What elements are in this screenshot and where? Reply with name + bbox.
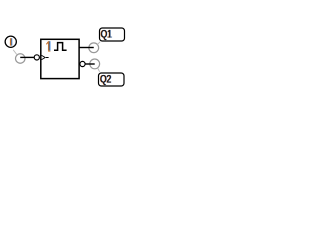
svg-text:Q2: Q2 [100,74,111,86]
svg-text:Q1: Q1 [101,28,112,40]
